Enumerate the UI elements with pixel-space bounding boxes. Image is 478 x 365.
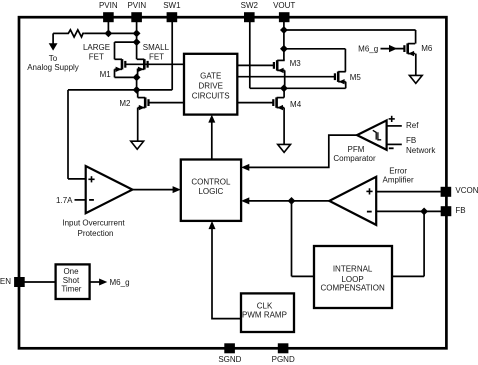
node junction M1 drain branch [133, 38, 141, 46]
box one shot timer [56, 264, 90, 299]
wire CLK to control logic (arrow up) [212, 228, 241, 319]
wire M1 drain branch [115, 41, 137, 43]
wire PFM - input (FB network) [387, 143, 402, 145]
svg-text:DRIVE: DRIVE [198, 82, 222, 91]
svg-text:M6_g: M6_g [110, 278, 130, 287]
wire M4 source to ground [283, 108, 285, 145]
op-amp error amplifier (points left) [329, 177, 376, 225]
svg-text:FB: FB [455, 206, 465, 215]
node junction FET sources [133, 74, 141, 82]
svg-text:M1: M1 [100, 70, 112, 79]
svg-text:CIRCUITS: CIRCUITS [192, 92, 230, 101]
wire M3 source to switch node [284, 70, 286, 88]
wire control logic to gate drive (arrow up) [211, 121, 213, 160]
svg-text:M6_g: M6_g [358, 44, 378, 53]
pin FB [441, 206, 452, 216]
pin EN [14, 277, 25, 287]
box CLK PWM RAMP [241, 293, 294, 332]
pin VCON [441, 187, 452, 197]
wire M6 source to ground [415, 54, 417, 76]
wire M5 gate line [237, 76, 335, 78]
svg-text:SGND: SGND [218, 355, 241, 364]
pin VOUT [279, 12, 290, 22]
wire compensation to error output node [291, 201, 293, 277]
pin SW1 [167, 12, 178, 22]
pin PVIN #2 [131, 12, 142, 22]
wire M5 source to switch node [345, 82, 347, 89]
svg-text:INTERNAL: INTERNAL [333, 264, 373, 273]
wire SW1 to overcurrent + input [67, 90, 69, 179]
wire PFM + input (Ref) [387, 125, 402, 127]
wire M4 gate line [237, 102, 273, 104]
pin SGND [224, 343, 235, 353]
node junction VOUT to M5 [280, 45, 288, 53]
svg-text:1.7A: 1.7A [56, 196, 73, 205]
wire error amp - input to FB [376, 210, 441, 212]
wire M1 source to node [114, 69, 116, 77]
wire M2 drain [137, 90, 139, 98]
transistor M4 [275, 97, 278, 107]
wire PFM output to control logic [248, 135, 357, 167]
comparator PFM (points left) [357, 120, 387, 149]
box GATE DRIVE CIRCUITS [184, 54, 237, 115]
transistor M5 [337, 72, 340, 82]
svg-text:To: To [49, 54, 58, 63]
svg-text:FB: FB [406, 136, 416, 145]
svg-text:Comparator: Comparator [333, 154, 376, 163]
node junction VOUT to M6 [280, 26, 288, 34]
svg-text:FET: FET [89, 52, 104, 61]
node junction SW1 line [133, 86, 141, 94]
pin PVIN #1 [103, 12, 114, 22]
svg-text:M4: M4 [290, 100, 302, 109]
wire sources node to SW1 line [136, 77, 138, 90]
svg-text:M6: M6 [421, 44, 433, 53]
wire VOUT branch to M5 drain [284, 48, 346, 50]
node junction PVIN#1 [105, 30, 113, 38]
wire SW1 net horizontal [68, 89, 172, 91]
svg-text:M5: M5 [350, 73, 362, 82]
wire pin SW1 drop [171, 20, 173, 90]
svg-text:EN: EN [0, 277, 11, 286]
pin PGND [278, 343, 289, 353]
node junction FB line [420, 208, 428, 216]
wire / arrow one shot output M6_g [90, 281, 100, 283]
wire small FET source to node [137, 69, 139, 77]
ground under M4 [278, 144, 291, 152]
wire VOUT branch to M6 drain [284, 29, 416, 31]
svg-text:Amplifier: Amplifier [383, 175, 414, 184]
wire error amp output to control logic [248, 200, 329, 202]
transistor small FET [143, 59, 146, 69]
svg-text:LARGE: LARGE [83, 43, 110, 52]
svg-text:FET: FET [149, 52, 164, 61]
op-amp input overcurrent protection comparator [86, 166, 133, 213]
wire M2 gate to gate drive [149, 102, 185, 104]
wire M4 drain to switch node [283, 88, 285, 97]
svg-text:M2: M2 [119, 99, 131, 108]
wire overcurrent output to control logic [132, 189, 173, 191]
wire SW2 switch node horizontal [250, 87, 346, 89]
box INTERNAL LOOP COMPENSATION [314, 246, 392, 308]
svg-text:Network: Network [406, 146, 436, 155]
ground under M6 [409, 75, 422, 83]
svg-text:Timer: Timer [61, 284, 81, 293]
svg-text:Protection: Protection [77, 229, 113, 238]
hysteresis symbol inside PFM [373, 130, 381, 140]
svg-text:M3: M3 [290, 59, 302, 68]
node junction error amp output [288, 197, 296, 205]
svg-text:GATE: GATE [200, 72, 221, 81]
svg-text:PVIN: PVIN [127, 1, 146, 10]
wire 1.7A to - input [75, 199, 86, 201]
wire compensation to FB node [423, 211, 425, 276]
transistor M3 [276, 60, 279, 70]
wire shared gate line M1/small FET to gate drive [125, 63, 184, 65]
wire / arrow To Analog Supply [52, 33, 54, 44]
svg-text:Analog Supply: Analog Supply [27, 63, 79, 72]
svg-text:PFM: PFM [348, 145, 365, 154]
transistor M2 [144, 97, 147, 107]
svg-text:VCON: VCON [455, 186, 478, 195]
wire pin PVIN#2 drop / small FET drain [136, 20, 138, 59]
node junction PVIN#2 [133, 30, 141, 38]
svg-text:Error: Error [389, 167, 407, 176]
svg-text:PWM RAMP: PWM RAMP [242, 311, 287, 320]
wire pin PVIN#1 drop [107, 20, 109, 33]
svg-text:Input Overcurrent: Input Overcurrent [62, 218, 125, 227]
wire error amp + input to VCON [376, 191, 441, 193]
svg-text:SMALL: SMALL [143, 43, 170, 52]
wire PVIN rail (horizontal) [53, 32, 66, 34]
svg-text:Ref: Ref [406, 121, 419, 130]
svg-text:PVIN: PVIN [99, 1, 118, 10]
svg-text:SW2: SW2 [241, 1, 259, 10]
wire M2 source to ground [137, 108, 139, 142]
transistor M1 (large FET) [121, 59, 124, 69]
svg-text:SW1: SW1 [163, 1, 181, 10]
svg-text:COMPENSATION: COMPENSATION [320, 284, 385, 293]
transistor M6 [406, 43, 409, 53]
svg-text:One: One [63, 267, 79, 276]
node junction SW2 switch node [280, 84, 288, 92]
svg-text:PGND: PGND [272, 355, 295, 364]
wire EN to one shot timer [24, 281, 56, 283]
svg-text:CLK: CLK [257, 302, 273, 311]
wire pin VOUT drop / M3 drain [283, 20, 285, 60]
wire pin SW2 drop [249, 20, 251, 88]
svg-text:LOGIC: LOGIC [198, 187, 223, 196]
pin SW2 [244, 12, 255, 22]
svg-text:CONTROL: CONTROL [191, 178, 231, 187]
svg-text:VOUT: VOUT [273, 1, 295, 10]
svg-text:LOOP: LOOP [341, 275, 363, 284]
wire / arrow M6_g to M6 gate [381, 48, 405, 50]
resistor (analog supply feed) [67, 30, 85, 37]
wire M3 gate line [237, 64, 274, 66]
ground under M2 [131, 141, 144, 149]
box CONTROL LOGIC [181, 160, 241, 221]
